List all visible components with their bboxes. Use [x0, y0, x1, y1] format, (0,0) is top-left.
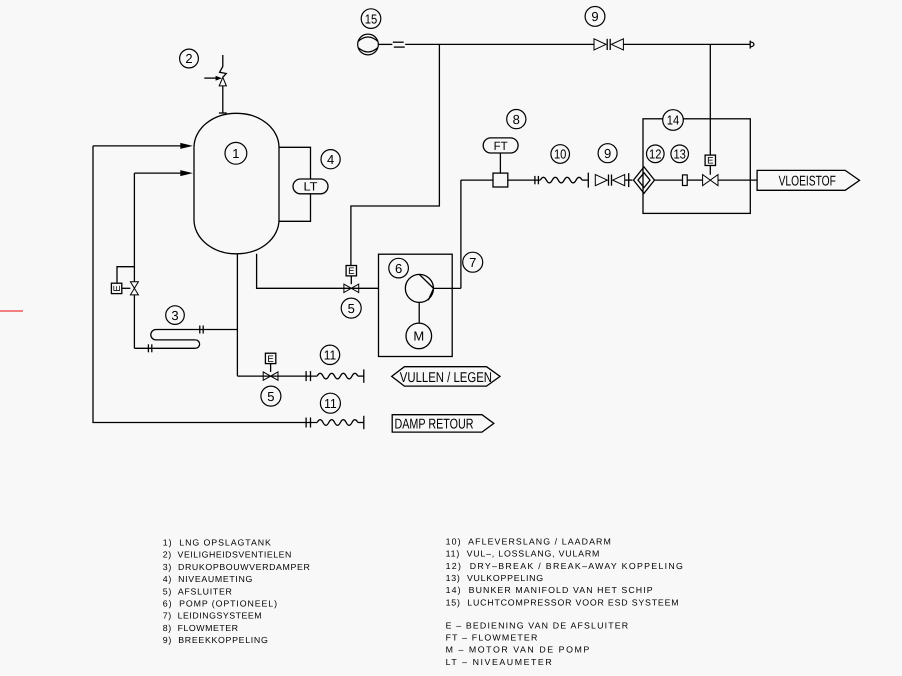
svg-text:7: 7 [469, 255, 476, 270]
svg-text:M – MOTOR VAN DE POMP: M – MOTOR VAN DE POMP [446, 645, 590, 655]
svg-text:7) LEIDINGSYSTEEM: 7) LEIDINGSYSTEEM [163, 611, 262, 621]
svg-text:E: E [707, 156, 713, 167]
svg-text:FT – FLOWMETER: FT – FLOWMETER [446, 633, 538, 643]
svg-text:11: 11 [324, 396, 337, 411]
svg-text:1) LNG OPSLAGTANK: 1) LNG OPSLAGTANK [163, 538, 271, 548]
svg-text:14) BUNKER MANIFOLD VAN HET S: 14) BUNKER MANIFOLD VAN HET SCHIP [446, 585, 653, 595]
svg-text:2) VEILIGHEIDSVENTIELEN: 2) VEILIGHEIDSVENTIELEN [163, 550, 292, 560]
svg-text:FT: FT [494, 139, 509, 153]
svg-text:9: 9 [604, 146, 611, 161]
svg-text:6) POMP (OPTIONEEL): 6) POMP (OPTIONEEL) [163, 599, 277, 609]
svg-text:DAMP RETOUR: DAMP RETOUR [395, 416, 474, 432]
svg-text:12: 12 [649, 147, 662, 162]
svg-text:9) BREEKKOPPELING: 9) BREEKKOPPELING [163, 635, 268, 645]
svg-text:10) AFLEVERSLANG / LAADARM: 10) AFLEVERSLANG / LAADARM [446, 536, 611, 546]
svg-text:14: 14 [667, 113, 680, 128]
svg-text:E: E [112, 285, 123, 291]
svg-text:9: 9 [591, 9, 598, 24]
svg-text:11) VUL–, LOSSLANG, VULARM: 11) VUL–, LOSSLANG, VULARM [446, 549, 600, 559]
svg-text:4: 4 [327, 152, 334, 167]
svg-text:5: 5 [267, 389, 274, 404]
svg-text:10: 10 [554, 147, 567, 162]
svg-text:11: 11 [324, 348, 337, 363]
svg-text:E: E [348, 266, 354, 277]
svg-text:3: 3 [171, 308, 178, 323]
svg-text:2: 2 [185, 51, 192, 66]
svg-text:15) LUCHTCOMPRESSOR VOOR ESD: 15) LUCHTCOMPRESSOR VOOR ESD SYSTEEM [446, 597, 679, 607]
svg-text:6: 6 [395, 261, 402, 276]
svg-text:LT – NIVEAUMETER: LT – NIVEAUMETER [446, 657, 552, 667]
svg-text:8) FLOWMETER: 8) FLOWMETER [163, 623, 238, 633]
svg-text:LT: LT [304, 179, 319, 193]
svg-text:VULLEN / LEGEN: VULLEN / LEGEN [400, 370, 492, 386]
svg-text:8: 8 [513, 112, 520, 127]
svg-text:E – BEDIENING VAN DE AFSLUITER: E – BEDIENING VAN DE AFSLUITER [446, 621, 628, 631]
svg-text:15: 15 [365, 11, 378, 26]
svg-text:3) DRUKOPBOUWVERDAMPER: 3) DRUKOPBOUWVERDAMPER [163, 562, 310, 572]
svg-text:12) DRY–BREAK / BREAK–AWAY KO: 12) DRY–BREAK / BREAK–AWAY KOPPELING [446, 561, 683, 571]
svg-text:5: 5 [348, 301, 355, 316]
svg-text:M: M [413, 329, 424, 344]
svg-text:1: 1 [232, 146, 239, 161]
svg-text:E: E [267, 354, 273, 365]
svg-text:13: 13 [673, 147, 686, 162]
svg-text:13) VULKOPPELING: 13) VULKOPPELING [446, 573, 544, 583]
svg-text:VLOEISTOF: VLOEISTOF [779, 173, 837, 189]
svg-text:5) AFSLUITER: 5) AFSLUITER [163, 586, 232, 596]
svg-text:4) NIVEAUMETING: 4) NIVEAUMETING [163, 574, 253, 584]
